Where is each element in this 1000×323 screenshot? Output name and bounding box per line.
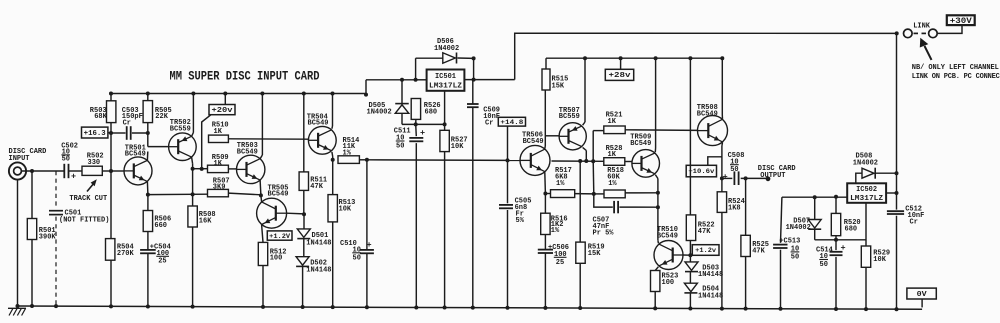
resistor R505: [143, 101, 152, 123]
wire TR501 base: [111, 170, 124, 172]
svg-text:1N4002: 1N4002: [786, 224, 811, 232]
wire R517 to node: [575, 193, 594, 195]
resistor R515: [542, 69, 550, 90]
ground symbol: [8, 308, 26, 315]
junction: [443, 306, 447, 310]
svg-text:50: 50: [62, 156, 70, 164]
resistor R504: [106, 239, 115, 261]
svg-text:1%: 1%: [556, 180, 565, 188]
junction: [261, 305, 265, 309]
wire +20v box to R510: [202, 115, 211, 169]
wire TR509 emitter column: [655, 175, 658, 179]
capacitor C512: [887, 211, 904, 214]
wire adj node row: [402, 123, 445, 125]
wire R525 column: [745, 178, 747, 235]
label R501 390K: [39, 227, 57, 242]
junction: [895, 171, 899, 175]
resistor R507: [208, 189, 229, 196]
label R514 11K 1%: [343, 137, 360, 158]
wire TR505 base row: [287, 212, 304, 215]
label C508 10 50 +: [723, 152, 745, 182]
wire R521 left riser: [592, 131, 594, 162]
diode D504: [684, 283, 697, 293]
resistor R518: [604, 190, 625, 198]
svg-text:TRACK CUT: TRACK CUT: [69, 195, 107, 203]
svg-text:680: 680: [425, 109, 438, 117]
wire D506 right: [458, 57, 474, 59]
transistor TR503: [237, 155, 265, 183]
svg-text:100: 100: [270, 255, 283, 263]
wire R524 column: [721, 178, 723, 191]
svg-text:68K: 68K: [94, 113, 107, 121]
transistor TR505 mirrored: [257, 198, 287, 228]
svg-text:BC549: BC549: [523, 138, 544, 146]
svg-text:47K: 47K: [310, 183, 323, 191]
junction: [259, 193, 263, 197]
wire TR502 base: [148, 146, 169, 148]
rail +28v: [546, 57, 722, 59]
svg-text:+1.2v: +1.2v: [695, 247, 716, 254]
label C507 47nF Pr 5%: [593, 217, 615, 238]
junction: [591, 159, 595, 163]
junction: [543, 306, 547, 310]
diode D505 apex up: [395, 104, 409, 114]
junction: [688, 253, 692, 257]
svg-text:1K: 1K: [608, 151, 617, 159]
label C501 NOT FITTED: [59, 210, 109, 225]
junction: [578, 159, 582, 163]
junction: [543, 192, 547, 196]
wire C504 to ground: [147, 253, 149, 306]
svg-text:+: +: [420, 128, 425, 138]
voltage box +28v: [605, 69, 633, 80]
transistor TR508: [698, 116, 728, 146]
voltage box +30V: [947, 15, 975, 26]
wire R507 to TR505 node: [228, 193, 261, 195]
wire TR507 collector down: [583, 147, 587, 150]
wire +16.3 box lead: [108, 132, 111, 134]
label TR510 BC549: [657, 226, 678, 240]
label C511 10 50 +: [394, 127, 425, 150]
label R510 1K: [212, 122, 229, 136]
wire R529 column: [865, 203, 867, 246]
resistor R514: [338, 156, 359, 164]
wire R523 to ground: [654, 292, 656, 309]
junction: [191, 92, 195, 96]
diode D507: [808, 220, 821, 230]
junction: [895, 191, 899, 195]
wire IC501 adj pin: [444, 91, 446, 125]
wire signal line R514 to TR506 base: [359, 159, 367, 161]
junction: [656, 205, 660, 209]
capacitor C513: [773, 245, 787, 248]
label C512 10nF Cr: [905, 205, 924, 226]
junction: [506, 306, 510, 310]
resistor R510: [209, 135, 229, 142]
wire R518 left: [594, 193, 604, 195]
junction: [400, 78, 404, 82]
wire link to +30V box: [937, 25, 962, 33]
label TRACK CUT with arrow: [69, 179, 107, 203]
wire R508 to ground: [192, 227, 194, 307]
wire C502 to R502: [69, 170, 83, 172]
junction: [688, 306, 692, 310]
wire R521 to TR508 base: [625, 129, 698, 132]
label R516 1K2 1%: [551, 216, 568, 235]
svg-text:IC501: IC501: [435, 73, 456, 81]
svg-text:LINK: LINK: [913, 22, 931, 30]
junction: [191, 167, 195, 171]
svg-text:+: +: [367, 240, 372, 250]
resistor R529: [861, 246, 870, 267]
junction: [656, 191, 660, 195]
wire connector ground: [17, 179, 19, 306]
capacitor C509: [467, 104, 479, 107]
svg-text:10K: 10K: [873, 256, 886, 264]
wire C503 right: [132, 132, 148, 134]
wire TR508 emitter column: [721, 142, 724, 146]
capacitor C508: [734, 171, 738, 185]
junction: [146, 92, 150, 96]
label R511 47K: [310, 177, 327, 191]
svg-text:NB/ ONLY LEFT CHANNEL: NB/ ONLY LEFT CHANNEL: [912, 64, 999, 72]
junction: [864, 307, 868, 311]
wire TR510 emitter to R523: [655, 267, 658, 271]
junction: [30, 304, 34, 308]
svg-text:BC549: BC549: [125, 151, 146, 159]
label R520 680: [844, 219, 861, 234]
wire R511 column: [303, 94, 305, 172]
label R524 1K8: [728, 198, 745, 212]
svg-text:+: +: [723, 172, 728, 182]
wire 0V box lead: [921, 299, 923, 307]
label R503 68K: [90, 107, 108, 121]
wire input signal: [21, 170, 64, 172]
junction: [109, 131, 113, 135]
junction: [720, 56, 724, 60]
svg-text:15K: 15K: [588, 250, 601, 258]
label TR509 BC549: [630, 133, 651, 147]
junction: [301, 305, 305, 309]
wire C508 to output: [741, 177, 768, 179]
wire D508 right: [876, 172, 897, 174]
svg-text:22K: 22K: [155, 113, 168, 121]
wire R502 to base node: [102, 170, 111, 172]
svg-text:50: 50: [820, 261, 828, 269]
resistor R517: [551, 190, 575, 198]
svg-text:BC549: BC549: [657, 233, 678, 241]
label R526 680: [424, 102, 441, 117]
wire C507 loop: [594, 194, 613, 207]
transistor TR501: [124, 157, 152, 185]
svg-text:BC559: BC559: [559, 113, 580, 121]
junction: [834, 195, 838, 199]
label R506 660: [154, 216, 171, 230]
label R512 100: [270, 248, 287, 262]
wire D505 column: [401, 80, 403, 104]
wire C513 column: [781, 197, 782, 243]
wire IC502 right pin: [886, 192, 896, 194]
wire IC501 input leads: [416, 79, 427, 81]
wire stage node row y161: [552, 160, 604, 162]
svg-text:50: 50: [396, 143, 404, 151]
label C503 150pF Cr: [122, 107, 143, 127]
voltage box +14.8: [498, 117, 525, 126]
label R507 3K9: [213, 177, 230, 191]
voltage box 0V: [907, 288, 936, 299]
junction: [191, 192, 195, 196]
wire node to D501: [303, 214, 305, 229]
ground bus 0V rail: [16, 306, 922, 309]
junction: [109, 169, 113, 173]
wire R505 column: [147, 94, 149, 101]
resistor R526: [411, 99, 420, 120]
wire +14.8 leader: [507, 126, 509, 160]
label D505 1N4002: [367, 102, 392, 117]
svg-text:+10.6v: +10.6v: [688, 168, 714, 175]
label R522 47K: [698, 222, 715, 236]
svg-text:LM317LZ: LM317LZ: [850, 195, 883, 203]
wire TR510 collector: [657, 240, 660, 243]
transistor TR507 pnp: [559, 123, 586, 150]
terminal disc card output: [766, 176, 771, 181]
junction: [779, 307, 783, 311]
label TR502 BC559: [170, 119, 191, 133]
junction: [720, 176, 724, 180]
svg-text:270K: 270K: [117, 250, 135, 258]
transistor TR509: [632, 150, 660, 178]
voltage box +1.2V: [267, 231, 292, 240]
wire D501 to D502: [303, 239, 305, 257]
label +C513 10 50: [779, 238, 800, 262]
wire to C508: [722, 177, 732, 179]
resistor R528: [604, 158, 625, 166]
resistor R506: [143, 211, 152, 232]
label D507 1N4002: [786, 217, 811, 232]
wire C503 left: [111, 132, 126, 134]
wire R519 column: [579, 161, 581, 242]
svg-text:OUTPUT: OUTPUT: [760, 172, 785, 180]
wire +20v box riser: [224, 94, 226, 105]
wire R512 to ground: [262, 266, 264, 307]
wire C507 right to emitter column: [619, 206, 658, 208]
junction: [583, 56, 587, 60]
label C510 10 50 +: [340, 240, 372, 262]
wire TR506 collector column: [544, 146, 547, 149]
junction: [302, 92, 306, 96]
wire D502 to ground: [302, 267, 304, 307]
junction: [720, 307, 724, 311]
label DISC CARD OUTPUT: [758, 165, 796, 180]
wire R518 right to emitter column: [625, 192, 658, 194]
wire TR503 emitter to node: [259, 180, 262, 195]
resistor R511: [299, 172, 308, 191]
label D502 1N4148: [306, 260, 331, 275]
label R513 10K: [339, 199, 356, 214]
wire TR503 collector to bus: [260, 155, 262, 159]
svg-text:1K: 1K: [608, 118, 617, 126]
resistor R525: [741, 235, 750, 256]
wire IC501 right pin: [464, 79, 514, 81]
voltage box +1.2v: [692, 245, 719, 256]
wire R515 top corner to rail: [545, 58, 547, 69]
svg-text:1N4002: 1N4002: [853, 159, 878, 167]
label R523 100: [662, 273, 679, 287]
svg-text:MM SUPER DISC INPUT CARD: MM SUPER DISC INPUT CARD: [170, 68, 320, 83]
svg-text:5%: 5%: [516, 217, 525, 225]
junction: [109, 92, 113, 96]
wire TR508 collector to rail: [721, 115, 723, 119]
svg-text:BC549: BC549: [268, 191, 289, 199]
transistor TR506: [520, 145, 550, 175]
wire +30 feed line: [515, 33, 897, 79]
label DISC CARD INPUT: [9, 148, 47, 163]
svg-text:15K: 15K: [552, 82, 565, 90]
junction: [688, 56, 692, 60]
junction: [834, 307, 838, 311]
wire TR505 collector: [260, 195, 263, 202]
label TR504 BC549: [307, 113, 329, 127]
capacitor C506: [538, 250, 553, 253]
label R502 330: [87, 153, 104, 167]
diode D502: [296, 257, 309, 267]
svg-text:+14.8: +14.8: [500, 119, 523, 126]
svg-text:1%: 1%: [551, 227, 560, 235]
svg-text:BC559: BC559: [170, 126, 191, 134]
resistor R523: [651, 271, 660, 292]
voltage box +10.6v: [686, 165, 716, 177]
junction: [54, 304, 58, 308]
wire R510 to TR504 base: [228, 138, 308, 140]
svg-text:680: 680: [845, 226, 858, 234]
diode D508: [862, 168, 875, 179]
junction: [331, 305, 335, 309]
junction: [895, 31, 899, 35]
label +C506 100 25: [548, 244, 569, 267]
label D501 1N4148: [306, 232, 331, 247]
wire +10.6v leader: [708, 157, 722, 166]
label R519 15K: [588, 243, 605, 258]
wire D503 to D504: [689, 272, 691, 283]
svg-text:16K: 16K: [199, 218, 212, 226]
label C514 10 50 +: [816, 243, 846, 269]
wire TR502 collector column: [192, 157, 193, 164]
wire base node column: [110, 94, 112, 101]
svg-text:660: 660: [154, 222, 167, 230]
diode D501: [297, 229, 310, 239]
label R521 1K: [606, 112, 623, 126]
capacitor C505: [499, 205, 513, 208]
wire R528 to TR509 base: [625, 161, 632, 163]
junction: [16, 304, 20, 308]
label C509 10nF Cr: [483, 106, 500, 127]
diode D503: [685, 262, 698, 272]
wire D506 left riser: [415, 58, 417, 80]
svg-text:+30V: +30V: [950, 16, 973, 26]
voltage box +20v: [209, 105, 235, 115]
svg-text:10K: 10K: [339, 206, 352, 214]
svg-text:1N4002: 1N4002: [367, 109, 392, 117]
label R508 16K: [199, 211, 216, 225]
wire TR504 collector to bus: [331, 126, 334, 129]
junction: [414, 78, 418, 82]
junction: [895, 307, 899, 311]
transistor TR502 pnp: [169, 133, 197, 161]
junction: [471, 306, 475, 310]
wire TR501 collector: [146, 152, 148, 161]
svg-text:Cr: Cr: [485, 120, 493, 128]
label TR508 BC549: [697, 104, 718, 118]
resistor R519: [576, 242, 585, 263]
junction: [365, 158, 369, 162]
svg-text:BC549: BC549: [308, 120, 329, 128]
junction: [744, 307, 748, 311]
wire R520 column: [835, 197, 837, 214]
resistor R509: [208, 165, 229, 172]
junction: [30, 169, 34, 173]
svg-text:0V: 0V: [917, 291, 928, 299]
ic IC502 LM317LZ: [847, 183, 886, 203]
label R505 22K: [155, 107, 172, 121]
label TR503 BC549: [237, 142, 258, 156]
label C505 6n8 Fr 5%: [515, 197, 532, 225]
resistor R508: [188, 206, 197, 227]
connector J1 disc card input: [9, 162, 26, 179]
label +C504 100 25: [150, 243, 171, 265]
wire R527 column: [444, 124, 446, 130]
svg-text:Cr: Cr: [910, 219, 918, 227]
transistor TR504: [308, 126, 336, 154]
junction: [331, 92, 335, 96]
label R517 6K8 1%: [555, 167, 572, 188]
wire R501 to ground: [31, 171, 33, 219]
svg-text:1N4148: 1N4148: [306, 239, 331, 247]
label R529 10K: [873, 249, 890, 264]
wire D504 to ground: [689, 293, 691, 308]
svg-text:3K9: 3K9: [213, 184, 226, 192]
junction: [365, 305, 369, 309]
wire C510 column: [366, 160, 368, 250]
svg-text:1N4148: 1N4148: [698, 292, 723, 300]
resistor R512: [258, 242, 267, 265]
junction: [223, 92, 227, 96]
wire bus riser to regulator output: [365, 80, 367, 94]
capacitor C507: [614, 201, 618, 213]
svg-text:390K: 390K: [39, 233, 57, 241]
label NB only left channel shown: [912, 64, 1000, 81]
link circles: [904, 29, 938, 38]
junction: [414, 122, 418, 126]
svg-text:100: 100: [662, 279, 675, 287]
wire R506 to C504: [147, 232, 149, 250]
junction: [592, 192, 596, 196]
junction: [331, 158, 335, 162]
svg-text:+: +: [71, 172, 76, 182]
svg-text:+20v: +20v: [212, 107, 234, 115]
junction: [146, 193, 150, 197]
wire TR510 base: [683, 254, 691, 256]
svg-text:330: 330: [88, 159, 101, 167]
label C502 10/63: [61, 142, 78, 181]
wire TR509 collector to rail: [654, 148, 656, 152]
junction: [813, 195, 817, 199]
bus +20V left: [109, 93, 366, 95]
junction: [443, 122, 447, 126]
junction: [619, 56, 623, 60]
svg-text:1K8: 1K8: [728, 204, 741, 212]
wire R522 column: [689, 58, 691, 215]
label R518 60K 1%: [607, 167, 624, 188]
